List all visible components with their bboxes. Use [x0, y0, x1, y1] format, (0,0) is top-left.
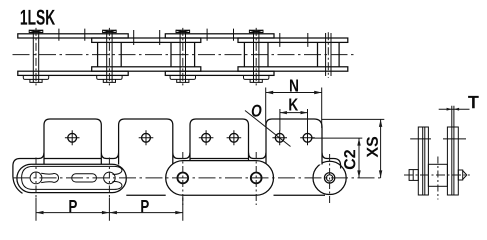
pin2 bottom cap (plan) [97, 76, 122, 82]
end view horizontal centerline [404, 174, 470, 176]
tab3 hole a with center marks [199, 130, 214, 145]
P dimension line [36, 212, 183, 214]
spring clip middle slot [72, 174, 97, 182]
pin2 head (side view) [104, 172, 116, 184]
pin3 vertical centerline (side) [182, 152, 184, 205]
dim label T [468, 96, 479, 108]
pin2 body (plan) [107, 30, 112, 82]
tab4 hole b with center marks [300, 130, 315, 145]
XS extension line from tab top [322, 118, 384, 120]
T arrows [447, 108, 452, 111]
dim label O [252, 105, 262, 117]
attachment bend ledge, gap tab2-tab3 [173, 153, 190, 159]
dim label C2 (rotated) [344, 150, 355, 169]
pin5 centerline (plan) [327, 32, 329, 78]
roller at chain end (side view) [313, 161, 346, 194]
pin3 bottom cap (plan) [170, 76, 195, 82]
roller at pin4 (plan) [244, 42, 268, 66]
right plate pair (end view) [447, 127, 458, 195]
pin2 centerline (plan) [108, 28, 110, 86]
pin1 centerline (plan) [35, 28, 37, 86]
XS arrows [379, 119, 382, 127]
attachment tab 2 (side view) [119, 119, 173, 165]
N dimension line [266, 92, 322, 94]
tab3 hole b with center marks [227, 130, 242, 145]
dim label P (left) [69, 200, 77, 212]
tab4 hole a with center marks [272, 130, 287, 145]
pin end right (end view) [458, 170, 467, 180]
dim label K [289, 98, 298, 110]
spring clip keyhole around pin1 [30, 172, 42, 184]
hidden inner-plate bottom edge (gap segments) [126, 194, 325, 196]
pin3 centerline (plan) [182, 28, 184, 86]
K dimension line [280, 112, 308, 114]
outer link plate A (plan, bottom band) [18, 71, 128, 75]
pin1 top rivet cap (plan) [29, 30, 43, 32]
C2 extension line from hole [312, 137, 362, 139]
O leader line [245, 111, 291, 147]
pin3 top rivet cap (plan) [176, 30, 190, 32]
attachment tab 4 (side view) [266, 119, 322, 165]
chain centerline (plan) [13, 54, 354, 56]
pin4 body (plan) [254, 30, 259, 82]
dim label P (right) [141, 200, 149, 212]
K dimension extension lines [280, 109, 308, 131]
pin1 bottom cap (plan) [23, 76, 48, 82]
attachment tab 1 (side view) [44, 119, 101, 165]
P arrows [36, 211, 44, 214]
XS dimension line [380, 119, 382, 177]
attachment bend ledge, gap tab3-tab4 [249, 153, 267, 159]
pin4 (side view) [251, 173, 262, 184]
hidden plate end ticks (plan) [59, 29, 234, 41]
inner link plate C (plan, top band) [92, 38, 201, 42]
pin2 vertical centerline (side) [108, 158, 110, 199]
attachment bend ledge, right end [322, 153, 341, 169]
pin5 bushing and pin (side view) [324, 173, 334, 183]
C2 dimension line [358, 138, 360, 178]
end view vertical centerline [437, 157, 439, 200]
T dimension line [439, 108, 470, 110]
outer link plate B (plan, bottom band) [165, 71, 274, 75]
pin1 vertical centerline (side) [35, 158, 37, 199]
roller at pin3 (plan) [171, 42, 195, 66]
outer link plate A (plan, top band) [18, 34, 128, 38]
pin4 bottom cap (plan) [244, 76, 269, 82]
roller at pin2 (plan) [98, 42, 122, 66]
roller at pin5 (plan) [318, 42, 340, 66]
left plate pair (end view) [418, 127, 428, 195]
attachment tab edge-on (end view) [452, 106, 454, 127]
N dimension extension lines [266, 88, 322, 129]
pin3 (side view) [177, 173, 188, 184]
inner link plate D (plan, top band) [238, 38, 348, 42]
link plate top edges (end view) [410, 138, 466, 140]
tab1 hole with center marks [65, 130, 80, 145]
C2 arrows [357, 138, 360, 146]
chain centerline (side view) [13, 177, 384, 179]
pin3 body (plan) [180, 30, 185, 82]
outer link plate B (plan, top band) [165, 34, 274, 38]
attachment bend ledge, left end [13, 153, 44, 194]
title 1LSK [21, 10, 55, 25]
inner link plate C (plan, bottom band) [92, 67, 201, 71]
tab2 hole with center marks [139, 130, 154, 145]
N arrows [266, 91, 274, 94]
dimension arrowheads [36, 91, 459, 215]
connecting link plate (capsule, side view) [17, 164, 126, 192]
pin1 body (plan) [33, 30, 38, 82]
pin4 centerline (plan) [255, 28, 257, 86]
spring clip outline (inside connecting link) [22, 166, 122, 189]
attachment tab 3 (side view) [190, 119, 249, 165]
dim label N [290, 79, 298, 91]
roller (end view) [428, 164, 447, 186]
pin head left (end view) [409, 170, 418, 181]
inner link plate pins3-4 (capsule, side view) [166, 161, 274, 196]
pin4 top rivet cap (plan) [249, 30, 263, 32]
pin2 top rivet cap (plan) [103, 30, 117, 32]
attachment bend line across tab3 [190, 158, 249, 160]
K arrows [280, 111, 287, 114]
inner link plate D (plan, bottom band) [238, 67, 348, 71]
dim label XS (rotated) [367, 137, 378, 158]
attachment bend ledge, gap tab1-tab2 [101, 153, 118, 159]
pin5 bushing end (plan) [326, 33, 331, 76]
P extension lines [36, 198, 183, 221]
pin4 vertical centerline (side) [255, 152, 257, 205]
attachment bend line across tab1 [44, 158, 101, 160]
pin5 vertical centerline (side) [329, 154, 331, 204]
